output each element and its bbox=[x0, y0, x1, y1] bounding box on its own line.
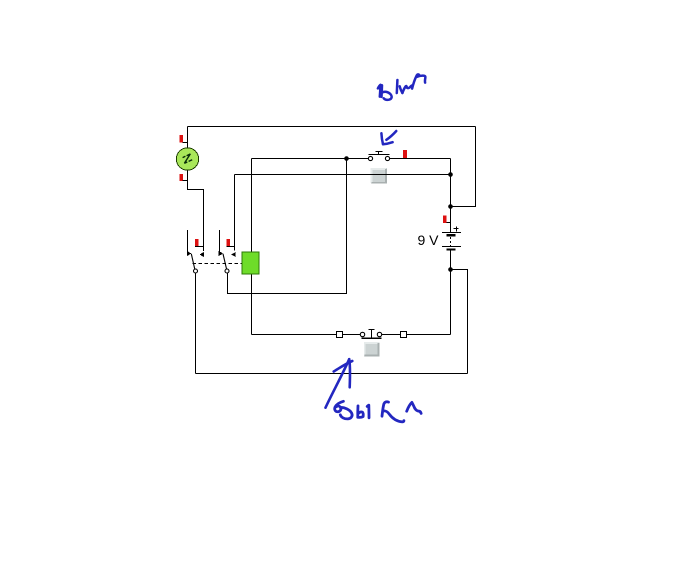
wire row y158 right bbox=[390, 158, 451, 160]
wire battery vertical upper bbox=[450, 159, 452, 233]
push button SB1 (normally open, top) bbox=[368, 152, 389, 161]
annotation Vykl (handwritten, bottom) bbox=[335, 401, 421, 422]
wire relay coil vertical bbox=[251, 159, 253, 335]
wire contact2 pole loop bbox=[228, 159, 347, 294]
relay contact K1.1 bbox=[187, 230, 204, 273]
wire bottom row NC button left bbox=[252, 334, 361, 336]
node junction y269 bbox=[448, 267, 453, 272]
wire top horizontal bbox=[188, 126, 476, 128]
SB1 terminal red bbox=[403, 150, 407, 158]
relay contact K1.2 bbox=[219, 230, 236, 273]
wire bottom row NC button right bbox=[382, 334, 451, 336]
mechanical link dashed bbox=[193, 263, 243, 265]
wire contact2 fixed lead up bbox=[234, 175, 236, 251]
lamp terminal bottom red bbox=[179, 174, 187, 181]
wire row y158 left bbox=[252, 158, 369, 160]
node junction y206 bbox=[448, 204, 453, 209]
battery GB1 9V bbox=[442, 215, 461, 250]
wire battery minus branch bbox=[451, 270, 468, 374]
lamp terminal top red bbox=[180, 135, 188, 143]
wire contact1 pole down bbox=[195, 273, 197, 374]
wire bottom long horizontal bbox=[196, 373, 468, 375]
wire lamp top lead bbox=[187, 127, 189, 149]
relay coil K1 bbox=[242, 252, 259, 274]
node junction y158 bbox=[344, 156, 349, 161]
annotation arrow to SB1 bbox=[381, 131, 396, 144]
SB2 actuator grey square bbox=[364, 342, 379, 356]
wire lamp bottom lead bbox=[188, 170, 204, 252]
wire row y174 bbox=[235, 174, 451, 176]
wire battery vertical lower bbox=[450, 251, 452, 335]
SB1 actuator grey square bbox=[371, 168, 387, 184]
push button SB2 (normally closed, bottom) bbox=[337, 330, 407, 339]
svg-text:9 V: 9 V bbox=[417, 232, 439, 248]
annotation arrow to SB2 bbox=[326, 359, 353, 408]
lamp HL1 bbox=[176, 148, 198, 170]
annotation Vkl (handwritten, top) bbox=[378, 74, 425, 99]
wire to battery top junction bbox=[451, 206, 477, 208]
node junction y174 bbox=[448, 172, 453, 177]
wire right vertical bbox=[475, 127, 477, 207]
